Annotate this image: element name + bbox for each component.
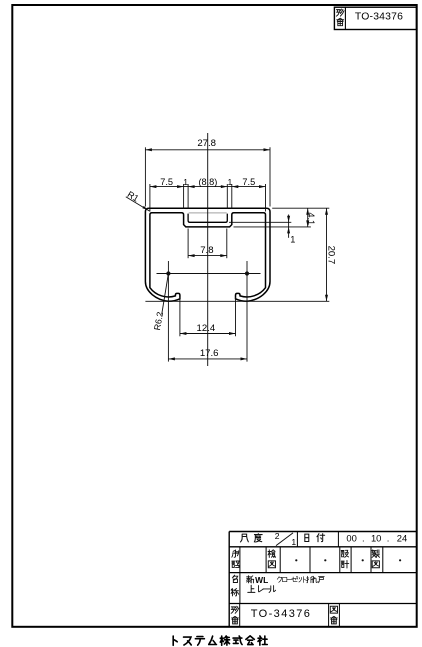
svg-text:12.4: 12.4 xyxy=(197,323,216,334)
svg-text:7.8: 7.8 xyxy=(200,245,213,256)
svg-text:1: 1 xyxy=(290,234,295,244)
svg-text:.: . xyxy=(387,532,390,543)
svg-text:1: 1 xyxy=(183,178,188,187)
svg-text:WL: WL xyxy=(255,575,268,585)
svg-text:R6.2: R6.2 xyxy=(152,311,165,331)
svg-text:TO-34376: TO-34376 xyxy=(355,12,403,23)
svg-text:4.1: 4.1 xyxy=(306,212,316,225)
svg-text:TO-34376: TO-34376 xyxy=(251,608,312,620)
svg-text:27.8: 27.8 xyxy=(197,138,216,149)
svg-text:1: 1 xyxy=(228,178,233,187)
svg-text:20.7: 20.7 xyxy=(325,246,336,265)
svg-text:R1: R1 xyxy=(126,189,141,204)
svg-text:.: . xyxy=(362,532,365,543)
svg-text:00: 00 xyxy=(346,532,356,543)
svg-text:7.5: 7.5 xyxy=(160,177,173,187)
svg-text:7.5: 7.5 xyxy=(242,177,255,187)
svg-text:24: 24 xyxy=(397,532,407,543)
svg-text:1: 1 xyxy=(291,537,296,547)
svg-text:10: 10 xyxy=(371,532,381,543)
svg-text:2: 2 xyxy=(275,531,280,541)
svg-text:17.6: 17.6 xyxy=(200,348,219,359)
